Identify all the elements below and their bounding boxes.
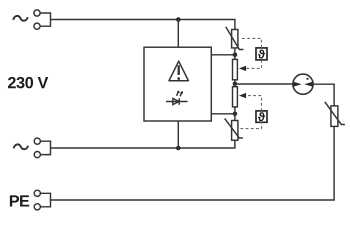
op module box U1 — [144, 47, 211, 121]
wire box bottom stub — [177, 121, 179, 148]
wire L line — [51, 20, 235, 30]
fuse F2 (thermal disconnect lower) — [233, 87, 238, 107]
label 230 V — [8, 77, 16, 88]
wire stub box to F2 node — [211, 113, 235, 115]
wire dashed T1 to F1 actuator — [246, 60, 262, 69]
wire dashed varistor R2 to T2 — [240, 122, 261, 128]
terminal PE circle 1 — [34, 190, 40, 196]
node junction dot below F2 — [233, 112, 238, 117]
varistor R2 (lower) — [232, 121, 238, 141]
varistor R1 (top) — [232, 30, 238, 48]
wire varistor R1 to F1 — [234, 48, 236, 60]
node N junction dot — [176, 146, 181, 151]
wire N line — [51, 140, 235, 148]
terminal N bracket — [41, 141, 51, 154]
terminal group N: AC symbol — [14, 144, 29, 149]
label PE — [10, 195, 19, 206]
thermal monitor T1 box — [256, 48, 267, 60]
terminal PE bracket — [41, 193, 51, 207]
terminal L circle 1 — [34, 10, 40, 16]
actuator arrow at F2 — [239, 93, 246, 98]
wire PE line — [51, 126, 335, 200]
warning triangle symbol — [169, 61, 188, 80]
terminal L circle 2 — [34, 23, 40, 29]
wire dashed varistor R1 to T1 — [242, 38, 262, 48]
node junction dot above F1 — [233, 53, 238, 58]
terminal PE circle 2 — [34, 204, 40, 210]
node mid junction dot — [233, 82, 238, 87]
wire F2 to varistor R2 — [234, 107, 236, 121]
wire box top stub — [177, 20, 179, 48]
thermal monitor T2 box — [256, 111, 267, 122]
wire mid node to gas discharge tube — [235, 83, 293, 85]
actuator arrow at F1 — [239, 66, 246, 71]
terminal group L: AC symbol — [13, 16, 28, 21]
fuse F1 (thermal disconnect upper) — [233, 59, 238, 79]
gas discharge tube U2 — [293, 74, 313, 94]
terminal L bracket — [40, 13, 50, 26]
terminal N circle 1 — [34, 138, 40, 144]
wire F1 to F2 — [234, 80, 236, 87]
terminal N circle 2 — [34, 152, 40, 158]
LED indicator symbol — [166, 101, 188, 103]
varistor R3 (right) — [331, 106, 338, 127]
wire gas tube to right corner — [313, 84, 334, 106]
wire stub box to F1 node — [211, 54, 235, 56]
wire dashed T2 to F2 actuator — [246, 96, 262, 111]
node L junction dot — [176, 17, 181, 22]
